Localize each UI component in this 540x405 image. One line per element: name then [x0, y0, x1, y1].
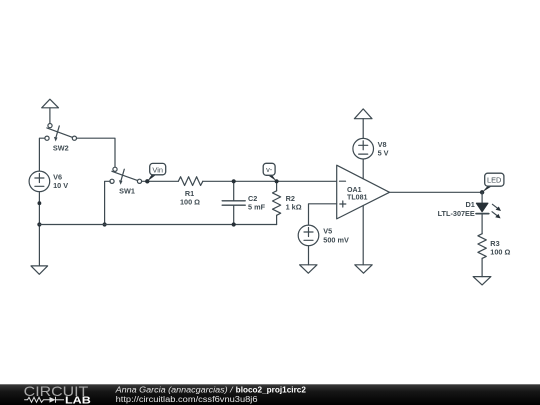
- svg-text:SW2: SW2: [53, 143, 69, 152]
- resistor R3: [478, 234, 486, 259]
- wire V5 bottom to ground: [308, 246, 310, 265]
- wire R3 to ground: [481, 258, 483, 276]
- resistor R1: [178, 177, 203, 186]
- net flag LED: [482, 173, 504, 192]
- svg-text:LTL-307EE: LTL-307EE: [438, 209, 475, 218]
- voltage source V5: [298, 225, 319, 246]
- wire SW1 left contact down to bottom rail: [105, 181, 111, 224]
- svg-text:TL081: TL081: [347, 194, 368, 202]
- svg-text:LED: LED: [487, 175, 501, 184]
- ground (V6): [31, 266, 48, 274]
- junction dot R2 top: [275, 179, 279, 183]
- output wire op-amp to LED node: [390, 191, 483, 193]
- resistor R2: [273, 181, 281, 224]
- junction dot C2 top: [232, 179, 236, 183]
- svg-text:10 V: 10 V: [53, 181, 68, 190]
- svg-text:100 Ω: 100 Ω: [490, 248, 510, 257]
- LED D1: [476, 203, 489, 234]
- wire SW2 left contact to V6 top: [39, 138, 45, 171]
- svg-text:http://circuitlab.com/cssf6vnu: http://circuitlab.com/cssf6vnu3u8j6: [116, 395, 259, 404]
- ground (V5): [300, 265, 317, 273]
- svg-text:Vin: Vin: [152, 166, 163, 175]
- svg-text:5 V: 5 V: [378, 149, 389, 158]
- junction dot bottom rail left: [37, 222, 41, 226]
- svg-text:100 Ω: 100 Ω: [180, 198, 200, 207]
- svg-text:SW1: SW1: [119, 187, 135, 196]
- svg-text:5 mF: 5 mF: [248, 203, 266, 212]
- logo zigzag diode glyph: [24, 397, 64, 403]
- svg-text:1 kΩ: 1 kΩ: [286, 203, 302, 212]
- ground (op-amp V-): [355, 265, 372, 273]
- junction dot LED node: [480, 190, 484, 194]
- power flag (VCC) top-left: [42, 99, 59, 124]
- power flag (VCC) above V8: [354, 109, 372, 119]
- op-amp OA1: [337, 165, 390, 219]
- svg-text:Anna Garcia (annacgarcias) /: Anna Garcia (annacgarcias) /: [114, 386, 233, 395]
- junction dot C2 bottom: [232, 222, 236, 226]
- footer bar: [0, 384, 540, 405]
- svg-text:bloco2_proj1circ2: bloco2_proj1circ2: [236, 386, 307, 395]
- voltage source V6: [29, 171, 50, 192]
- wire V6 bottom to ground rail: [38, 192, 40, 266]
- switch SW1: [110, 167, 142, 185]
- wire op-amp V+ pin to V8: [362, 159, 364, 179]
- junction dot bottom rail SW1: [103, 222, 107, 226]
- voltage source V8: [353, 138, 374, 159]
- net flag v-: [263, 163, 276, 181]
- wire V8 top to power flag: [362, 119, 364, 139]
- wire SW2 right contact to SW1 top: [77, 138, 116, 167]
- wire op-amp V- pin to ground: [362, 206, 364, 265]
- bottom rail wire: [39, 224, 276, 226]
- svg-text:v-: v-: [266, 165, 273, 174]
- svg-text:500 mV: 500 mV: [323, 235, 349, 244]
- wire + input to V5: [309, 204, 337, 226]
- svg-text:LAB: LAB: [65, 396, 91, 405]
- wire SW1 right to R1: [142, 180, 179, 182]
- wire R1 to op-amp input: [203, 180, 337, 182]
- ground (R3): [473, 277, 491, 285]
- wire LED node down to D1: [481, 192, 483, 203]
- switch SW2: [45, 124, 77, 142]
- LED emission arrows: [492, 204, 501, 218]
- junction dot on V6 wire: [38, 201, 42, 205]
- junction dot Vin node: [145, 179, 149, 183]
- net flag Vin: [147, 163, 165, 181]
- capacitor C2: [222, 181, 245, 224]
